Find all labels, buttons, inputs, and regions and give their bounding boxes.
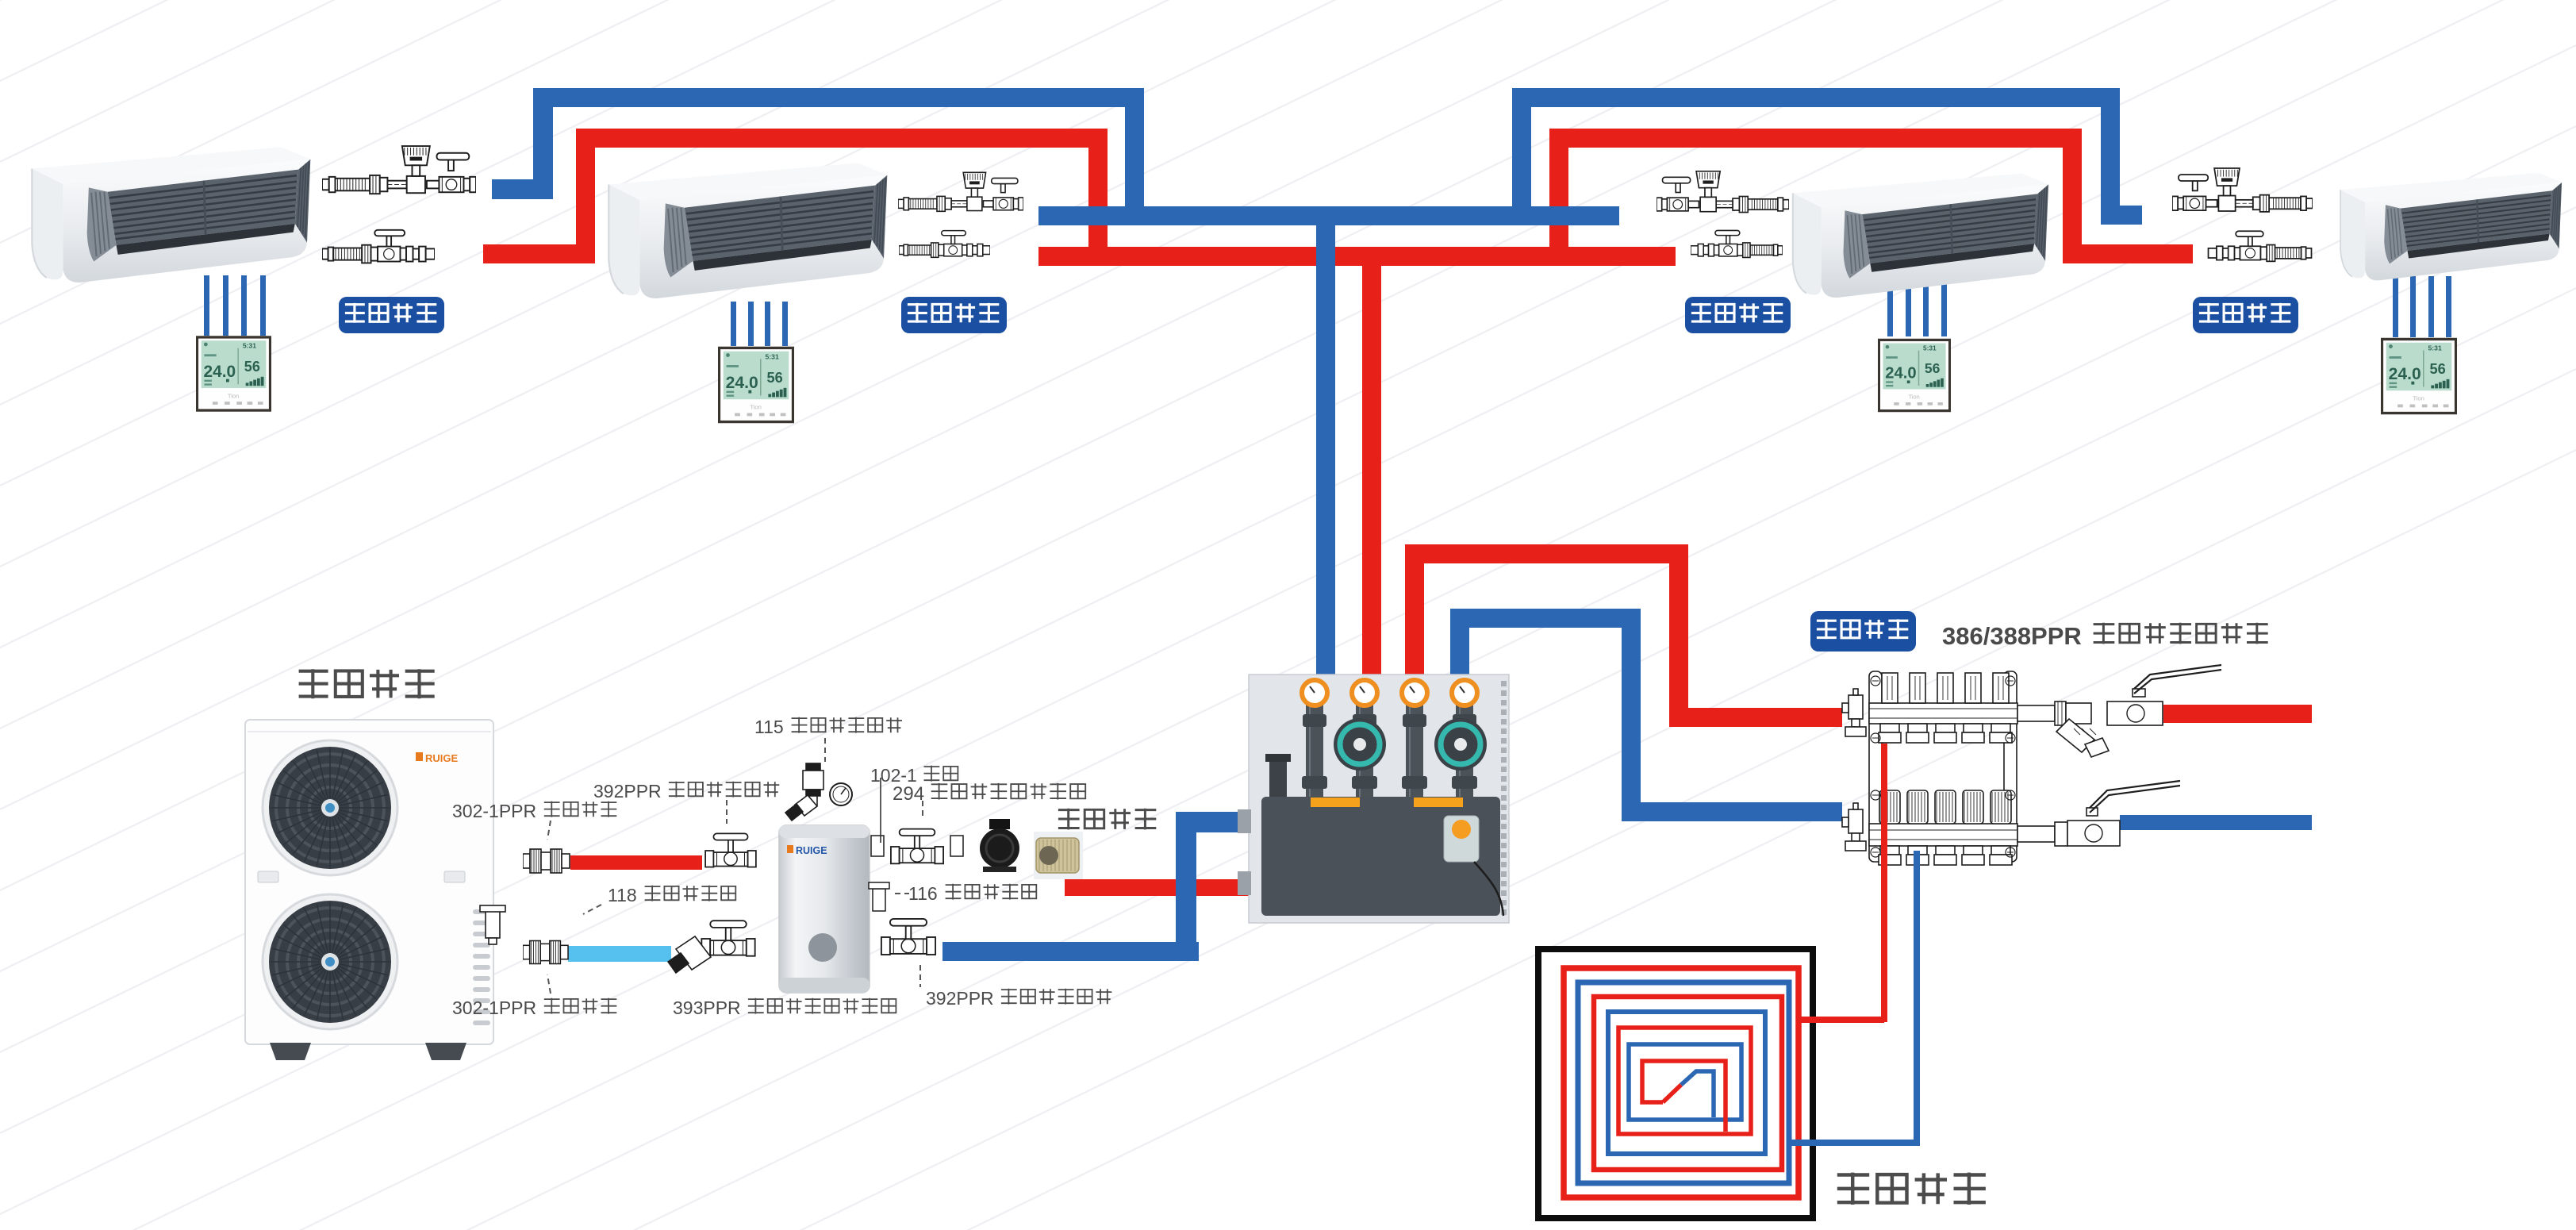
svg-text:302-1PPR: 302-1PPR [452,801,542,821]
svg-text:302-1PPR: 302-1PPR [452,997,542,1018]
svg-text:118: 118 [608,885,642,905]
svg-text:116: 116 [908,883,942,904]
svg-text:392PPR: 392PPR [593,781,666,801]
svg-text:115: 115 [754,717,789,737]
svg-text:294: 294 [893,783,930,805]
svg-text:RUIGE: RUIGE [425,752,459,764]
svg-text:393PPR: 393PPR [673,997,746,1018]
svg-text:RUIGE: RUIGE [796,845,827,856]
svg-text:392PPR: 392PPR [926,988,999,1009]
svg-text:386/388PPR: 386/388PPR [1942,622,2088,650]
